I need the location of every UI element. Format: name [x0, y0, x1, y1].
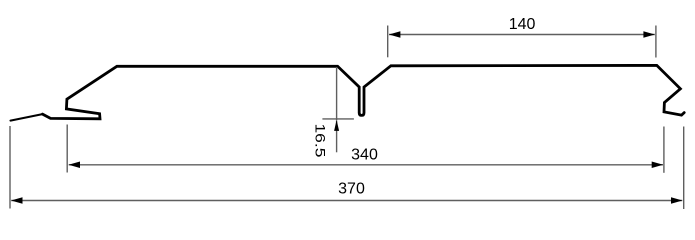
- dim 370: right arrowhead: [671, 197, 683, 204]
- svg-text:16.5: 16.5: [312, 124, 328, 158]
- dim 370: extension line left: [9, 126, 11, 209]
- svg-text:140: 140: [509, 16, 536, 33]
- svg-text:340: 340: [351, 147, 378, 164]
- dim 140: extension line right: [655, 26, 657, 58]
- dim 140: dimension line: [389, 34, 655, 36]
- dim 370: left arrowhead: [11, 197, 23, 204]
- dim 340: right arrowhead: [652, 162, 664, 169]
- left panel thin nose tail: [11, 114, 43, 121]
- dim 16.5: tick line: [322, 118, 354, 120]
- dim 16.5: arrow shaft: [336, 121, 338, 152]
- dim 140: extension line left: [387, 26, 389, 58]
- dim 16.5: up arrowhead: [334, 120, 339, 131]
- dim 140: right arrowhead: [643, 31, 655, 38]
- dim 16.5: extension line from panel corner: [336, 67, 338, 121]
- dim 340: extension line left: [66, 125, 68, 173]
- svg-text:370: 370: [338, 181, 365, 198]
- dim 340: left arrowhead: [69, 162, 81, 169]
- dim 140: left arrowhead: [389, 31, 401, 38]
- dim 370: extension line right: [683, 127, 685, 210]
- dim 340: dimension line: [69, 164, 663, 166]
- left panel profile outline: [43, 65, 685, 118]
- dim 370: dimension line: [11, 200, 682, 202]
- dim 340: extension line right: [663, 127, 665, 173]
